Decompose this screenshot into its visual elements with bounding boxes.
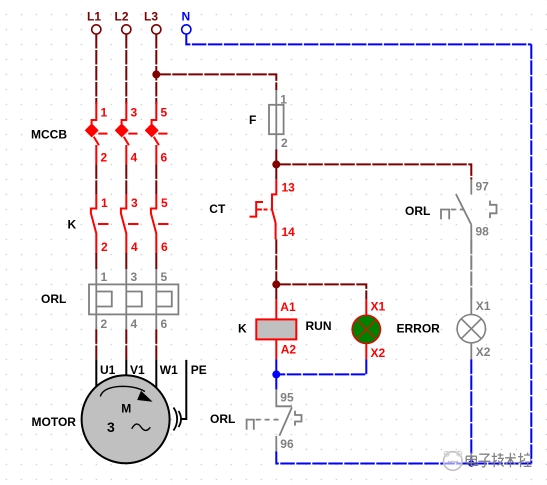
svg-text:3: 3 (131, 196, 138, 210)
contactor K pole 3 pins 5-6 (151, 194, 169, 254)
wire lamp RUN to neutral node (276, 359, 366, 374)
breaker MCCB pole 1 pins 1-2 (85, 102, 108, 164)
wire K to ORL pole1 (95, 253, 97, 269)
svg-text:A1: A1 (280, 300, 296, 314)
motor pin W1 (155, 359, 157, 388)
svg-text:6: 6 (161, 317, 168, 331)
svg-text:4: 4 (131, 150, 138, 164)
wire L3 branch to fuse (156, 74, 276, 90)
node bottom rail junction (468, 460, 474, 466)
node coil junction (272, 280, 280, 288)
overload contact 97-98 latch (490, 201, 497, 219)
svg-text:3: 3 (131, 270, 138, 284)
overload relay ORL body (89, 284, 178, 314)
svg-text:N: N (182, 10, 191, 24)
svg-text:L3: L3 (144, 10, 158, 24)
svg-text:U1: U1 (100, 363, 116, 377)
svg-text:3: 3 (131, 105, 138, 119)
wire MCCB to K pole3 (155, 164, 157, 194)
svg-text:K: K (238, 322, 247, 336)
wire ORL 96 to bottom rail (276, 452, 531, 464)
fuse F (249, 90, 288, 150)
svg-text:MCCB: MCCB (31, 128, 67, 142)
svg-text:L1: L1 (87, 10, 101, 24)
breaker MCCB pole 2 pins 3-4 (115, 102, 138, 164)
node neutral junction (272, 370, 280, 378)
svg-text:14: 14 (282, 225, 296, 239)
svg-text:RUN: RUN (306, 319, 332, 333)
contactor K pole 1 pins 1-2 (91, 194, 109, 254)
overload relay ORL (41, 269, 178, 331)
svg-text:ERROR: ERROR (397, 322, 441, 336)
svg-text:X1: X1 (476, 299, 491, 313)
wire N to right rail (186, 34, 531, 44)
svg-text:3: 3 (107, 419, 115, 435)
wire ORL to motor W1 (155, 329, 157, 359)
motor phase sine symbol (132, 424, 151, 430)
wire K to ORL pole2 (125, 253, 127, 269)
breaker MCCB pole 3 pins 5-6 (145, 102, 168, 164)
overload relay ORL heater pole 1 pins 1-2 (96, 269, 112, 331)
wire lamp X2 to bottom rail (470, 359, 472, 463)
pushbutton CT pins 13-14 (209, 179, 295, 239)
svg-text:6: 6 (161, 150, 168, 164)
wire junction to ORL 97 (276, 164, 471, 179)
wire K to ORL pole3 (155, 253, 157, 269)
overload contact ORL 97-98 (405, 179, 497, 239)
wire ORL 98 to lamp X (470, 239, 472, 299)
svg-text:2: 2 (101, 150, 108, 164)
svg-text:5: 5 (161, 105, 168, 119)
svg-text:W1: W1 (160, 363, 178, 377)
svg-text:X2: X2 (476, 345, 491, 359)
svg-text:5: 5 (161, 270, 168, 284)
wire PE (181, 360, 186, 419)
overload contact 97-98 actuator (441, 210, 449, 220)
motor pin V1 (125, 359, 127, 377)
svg-text:M: M (121, 401, 131, 415)
svg-text:13: 13 (282, 181, 296, 195)
overload contact 95-96 actuator (247, 420, 254, 430)
wire L3 to MCCB (155, 34, 157, 104)
svg-text:1: 1 (101, 270, 108, 284)
svg-text:MOTOR: MOTOR (32, 415, 77, 429)
wire MCCB to K pole1 (95, 164, 97, 194)
svg-text:98: 98 (476, 225, 490, 239)
svg-text:X2: X2 (371, 346, 386, 360)
terminal L1 (87, 10, 101, 35)
svg-text:1: 1 (280, 93, 287, 107)
lamp ERROR X1-X2 (457, 299, 491, 359)
breaker MCCB (31, 102, 168, 164)
overload relay ORL heater pole 3 pins 5-6 (156, 269, 172, 331)
svg-text:6: 6 (161, 240, 168, 254)
svg-text:97: 97 (476, 180, 490, 194)
svg-text:2: 2 (101, 240, 108, 254)
svg-text:L2: L2 (115, 10, 129, 24)
wire MCCB to K pole2 (125, 164, 127, 194)
node fuse junction (272, 160, 280, 168)
svg-text:5: 5 (161, 196, 168, 210)
svg-text:F: F (249, 113, 256, 127)
motor PE brush (174, 408, 178, 431)
svg-text:4: 4 (131, 317, 138, 331)
wire L2 to MCCB (125, 34, 127, 104)
overload contact ORL 95-96 (210, 389, 302, 452)
wire fuse to CT (275, 149, 277, 179)
svg-text:K: K (68, 218, 77, 232)
svg-text:1: 1 (101, 105, 108, 119)
wire right rail down (530, 44, 532, 463)
wire L1 to MCCB (95, 34, 97, 104)
wire ORL to motor U1 (95, 329, 97, 359)
svg-text:ORL: ORL (405, 204, 430, 218)
terminal N (182, 10, 191, 35)
coil K pins A1-A2 (238, 299, 332, 359)
motor M (32, 359, 207, 463)
motor rotation arrow (100, 386, 145, 396)
svg-text:ORL: ORL (41, 292, 66, 306)
node L3 junction (152, 70, 160, 78)
svg-text:X1: X1 (371, 300, 386, 314)
terminal L2 (115, 10, 131, 35)
svg-text:2: 2 (101, 317, 108, 331)
pushbutton CT actuator (250, 202, 264, 217)
svg-text:1: 1 (101, 196, 108, 210)
overload relay ORL heater pole 2 pins 3-4 (126, 269, 142, 331)
motor body (82, 375, 170, 463)
wire junction to lamp RUN (276, 284, 366, 299)
svg-text:A2: A2 (281, 343, 297, 357)
svg-text:2: 2 (281, 136, 288, 150)
svg-text:95: 95 (280, 391, 294, 405)
overload contact 95-96 latch (295, 411, 302, 426)
terminal L3 (144, 10, 161, 35)
wire CT to coil K (275, 239, 277, 299)
svg-text:ORL: ORL (210, 412, 235, 426)
lamp RUN green pins X1-X2 (352, 299, 440, 360)
svg-text:CT: CT (209, 202, 226, 216)
wire ORL to motor V1 (125, 329, 127, 359)
svg-text:96: 96 (280, 437, 294, 451)
contactor K pole 2 pins 3-4 (121, 194, 139, 254)
motor pin U1 (95, 359, 97, 388)
svg-text:PE: PE (191, 363, 207, 377)
contactor K main contacts (68, 194, 169, 254)
svg-text:4: 4 (131, 240, 138, 254)
wire coil A2 to neutral node (275, 359, 277, 389)
